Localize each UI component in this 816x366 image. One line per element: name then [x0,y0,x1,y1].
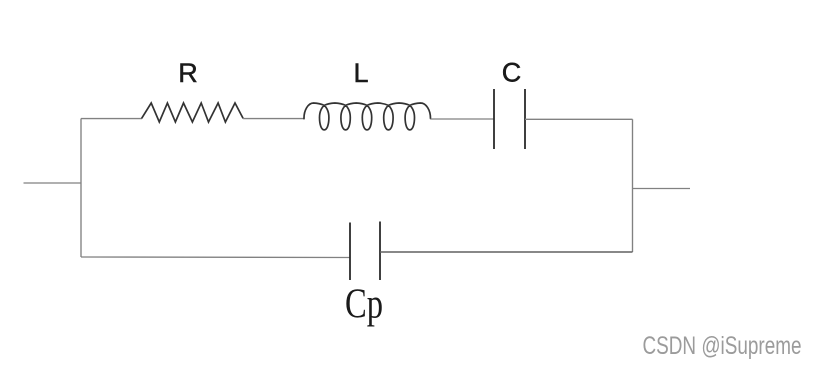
wire bottom from Cp to right corner [380,251,633,253]
wire left vertical [80,119,82,258]
svg-text:CSDN @iSupreme: CSDN @iSupreme [643,332,802,360]
wire right vertical [632,119,634,252]
inductor L [304,103,431,130]
svg-text:C: C [502,58,522,88]
capacitor Cp right plate [379,222,381,281]
resistor R [142,103,244,122]
wire between resistor and inductor [243,118,304,120]
capacitor C left plate [493,89,495,149]
wire between inductor and capacitor C [431,118,495,120]
wire right lead [633,188,691,190]
svg-text:L: L [353,58,368,88]
wire bottom left to Cp [81,256,350,259]
wire from capacitor C to right corner [525,118,633,120]
capacitor Cp left plate [349,223,351,281]
wire left lead [24,182,82,184]
capacitor C right plate [524,89,526,149]
wire top from left corner to resistor [81,118,142,120]
svg-text:R: R [178,58,198,88]
svg-text:Cp: Cp [345,282,383,328]
